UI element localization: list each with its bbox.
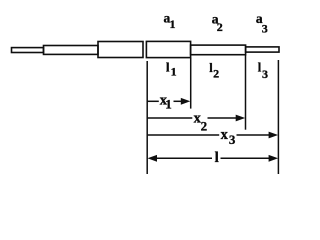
svg-text:l: l: [215, 150, 219, 166]
label l2: [209, 61, 219, 81]
label a2: [212, 11, 223, 34]
svg-text:3: 3: [262, 21, 268, 35]
dimension x3: [147, 127, 278, 147]
segment a3: [246, 47, 279, 52]
svg-text:x: x: [221, 127, 229, 143]
segment a1: [146, 41, 190, 57]
label a1: [164, 11, 176, 31]
rod tip segment left: [12, 48, 44, 53]
svg-text:2: 2: [217, 20, 223, 34]
svg-text:1: 1: [171, 65, 177, 79]
dimension l total: [148, 150, 279, 166]
label l1: [166, 61, 177, 79]
segment a2: [191, 45, 246, 55]
dimension x2: [147, 110, 245, 133]
extension line V2: [190, 58, 192, 109]
extension line V1: [146, 61, 148, 174]
svg-text:3: 3: [229, 132, 236, 147]
extension line V3: [245, 55, 247, 130]
svg-text:1: 1: [165, 96, 172, 111]
rod middle segment left: [44, 46, 99, 55]
svg-text:3: 3: [262, 67, 268, 81]
svg-text:2: 2: [201, 118, 208, 133]
extension line V4: [277, 60, 279, 174]
label l3: [258, 61, 268, 81]
rod base segment left: [98, 42, 143, 58]
label a3: [256, 11, 268, 35]
svg-text:l: l: [166, 61, 170, 75]
dimension x1: [147, 93, 190, 112]
svg-text:1: 1: [170, 17, 176, 31]
svg-text:2: 2: [213, 67, 219, 81]
